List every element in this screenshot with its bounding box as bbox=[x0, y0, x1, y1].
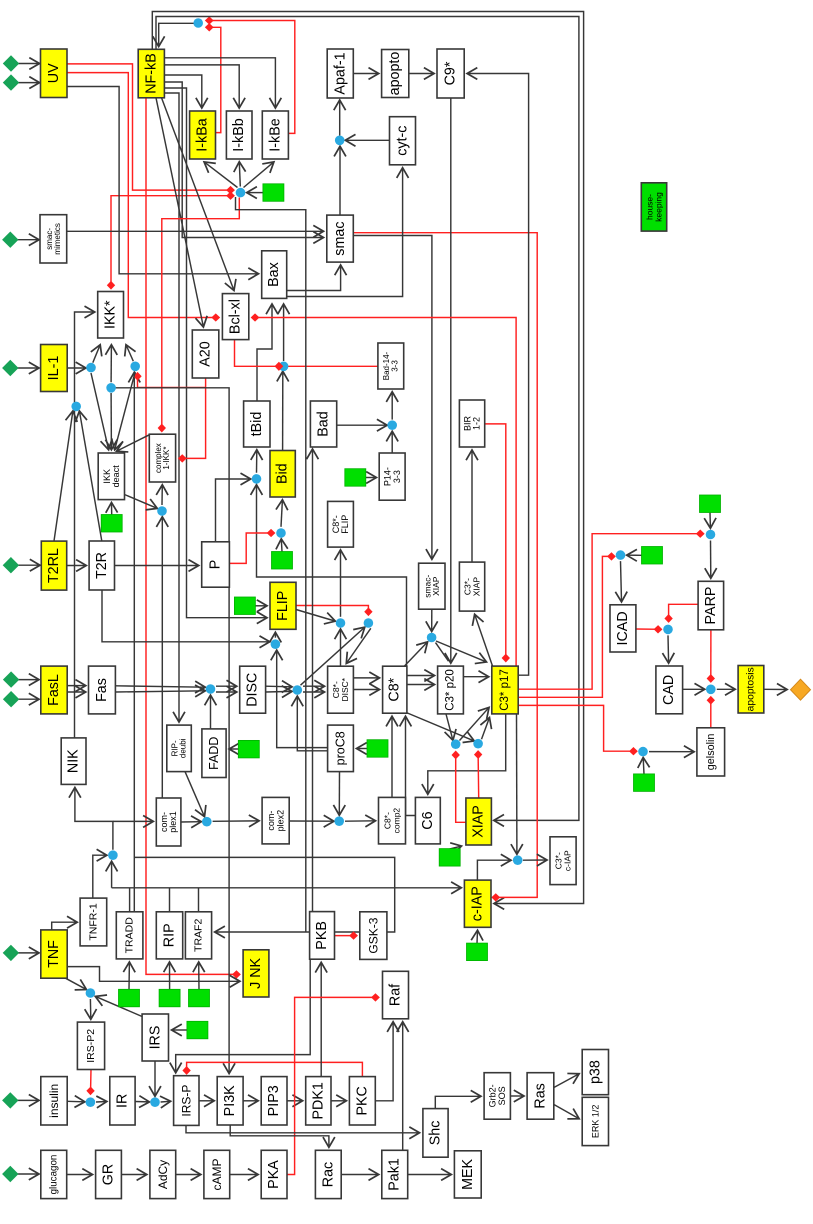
wire C3* p17 to C3*-XIAP bbox=[475, 615, 493, 666]
wire C3*-XIAP to BIR 1-2 bbox=[471, 451, 473, 563]
svg-text:3-3: 3-3 bbox=[390, 360, 399, 372]
wire Pak1 to MEK bbox=[408, 1174, 451, 1176]
wire apoptosis to output bbox=[764, 688, 787, 690]
box T2RL bbox=[41, 541, 66, 590]
wire IKK deact to complex1-IKK gate bbox=[125, 495, 157, 509]
svg-text:apoptosis: apoptosis bbox=[746, 667, 757, 711]
svg-text:I-kBe: I-kBe bbox=[267, 118, 283, 151]
svg-text:XIAP: XIAP bbox=[431, 576, 441, 596]
house-keeping square bbox=[467, 943, 488, 961]
wire proC8 to C8 gate bbox=[297, 697, 327, 751]
svg-text:C9*: C9* bbox=[443, 61, 459, 85]
wire GR to AdCy bbox=[121, 1174, 146, 1176]
box com-plex1 bbox=[156, 798, 181, 846]
wire apoptosome gate to Apaf-1 bbox=[339, 101, 341, 136]
wire square to IRS bbox=[172, 1029, 187, 1031]
box PKB bbox=[310, 912, 335, 960]
node gelsolin gate bbox=[638, 747, 648, 757]
wire gelsolin gate to gelsolin bbox=[649, 751, 694, 753]
svg-text:PKB: PKB bbox=[314, 921, 330, 950]
wire RIP-deubi to complex2 gate bbox=[185, 772, 204, 817]
wire AdCy to cAMP bbox=[176, 1174, 201, 1176]
wire C8 gate to C8*-DISC* 1 bbox=[303, 685, 324, 687]
input diamond bbox=[3, 671, 19, 687]
svg-text:PARP: PARP bbox=[703, 587, 719, 625]
node Bid gate bbox=[276, 528, 286, 538]
wire C3 p17 gate b to C3* p17 bbox=[482, 718, 490, 739]
svg-text:deubi: deubi bbox=[179, 738, 188, 758]
node C3 gate bbox=[427, 633, 437, 643]
node Bad-14-3-3 gate bbox=[387, 420, 397, 430]
wire FADD to DISC gate bbox=[210, 696, 212, 729]
wire PDK1 to PKC bbox=[331, 1100, 346, 1102]
box Bad bbox=[310, 401, 336, 447]
wire tBid to Bax bbox=[257, 305, 272, 402]
box TRAF2 bbox=[185, 912, 211, 959]
wire complex 1-IKK* to IKK deact bbox=[117, 434, 151, 451]
wire NF-kB to I-kBa bbox=[164, 75, 201, 108]
wire C8*-DISC* to C8* 1 bbox=[353, 677, 379, 679]
box PKA bbox=[261, 1150, 287, 1198]
wire input to UV 1 bbox=[18, 63, 39, 65]
wire C8* to tBid gate bbox=[257, 485, 407, 666]
svg-text:GR: GR bbox=[101, 1164, 117, 1185]
wire tBid gate to tBid bbox=[256, 450, 258, 472]
wire FLIP to C8-FLIP gate bbox=[296, 610, 335, 622]
wire Bax gate to Bax bbox=[283, 305, 285, 362]
wire Bad-14-3-3 gate to Bad-14-3-3 bbox=[391, 392, 393, 419]
box cyt-c bbox=[390, 117, 416, 165]
house-keeping square bbox=[272, 552, 293, 570]
svg-text:gelsolin: gelsolin bbox=[705, 734, 717, 771]
svg-text:UV: UV bbox=[46, 63, 62, 83]
wire complex1-IKK gate to complex 1-IKK* bbox=[161, 485, 163, 505]
svg-text:C8*: C8* bbox=[387, 677, 403, 701]
svg-text:Bid: Bid bbox=[275, 463, 291, 484]
svg-text:P: P bbox=[208, 560, 224, 570]
wire net to TRAF2 bbox=[134, 857, 394, 932]
wire C8*-comp2 to C8* bbox=[391, 717, 393, 798]
wire IRS-P2 gate to IRS-P2 bbox=[89, 999, 91, 1019]
wire complex2 gate to complex2 bbox=[213, 820, 259, 823]
wire C3* p17 to C6 bbox=[428, 714, 506, 794]
node C8-DISC gate bbox=[364, 618, 374, 628]
input diamond bbox=[2, 1166, 18, 1182]
box P14-3-3 bbox=[379, 453, 405, 500]
wire PKB inhibits GSK-3 bbox=[335, 935, 357, 937]
wire input to UV 2 bbox=[18, 82, 39, 84]
box C8*-comp2 bbox=[379, 797, 406, 844]
wire XIAP inhibits C3 p17 gate a bbox=[456, 752, 466, 822]
wire I-kB gate inhibits complex 1-IKK* bbox=[162, 198, 240, 431]
node IKK gate a bbox=[86, 363, 96, 373]
box BIR 1-2 bbox=[459, 400, 484, 447]
wire square to RIP bbox=[169, 963, 171, 990]
svg-text:Bcl-xl: Bcl-xl bbox=[228, 299, 244, 334]
input diamond bbox=[3, 945, 19, 961]
wire PKB to IRS-P bbox=[176, 959, 311, 1072]
svg-text:FLIP: FLIP bbox=[275, 591, 291, 621]
svg-text:PKA: PKA bbox=[266, 1160, 282, 1189]
wire square to FADD bbox=[230, 748, 239, 750]
box insulin bbox=[41, 1077, 67, 1125]
wire square to c-IAP bbox=[476, 931, 479, 944]
wire UV inhibits I-kB gate 2 bbox=[67, 73, 233, 196]
wire Rac to Pak1 bbox=[341, 1174, 378, 1176]
wire Fas to DISC gate 1 bbox=[116, 686, 205, 687]
wire DISC gate to DISC 2 bbox=[216, 691, 236, 693]
wire PI3K to PIP3 bbox=[243, 1100, 258, 1102]
svg-text:XIAP: XIAP bbox=[471, 805, 487, 838]
wire IKK gate b to IKK* bbox=[126, 345, 133, 361]
wire T2RL to IKK gate d bbox=[54, 412, 73, 542]
svg-text:AdCy: AdCy bbox=[156, 1160, 170, 1189]
wire square to I-kB gate bbox=[247, 192, 263, 194]
wire TRADD-RIP-TRAF2 bus to c-IAP bbox=[112, 887, 461, 889]
wire input to insulin bbox=[18, 1099, 39, 1101]
wire PKC to Raf bbox=[375, 1022, 393, 1101]
wire ICAD gate to ICAD bbox=[621, 561, 622, 601]
wire square to TRAF2 bbox=[198, 963, 200, 990]
wire smac-mimetics to smac bbox=[67, 230, 323, 232]
svg-text:cAMP: cAMP bbox=[210, 1158, 224, 1190]
wire CAD to apoptosis gate bbox=[683, 688, 705, 690]
wire input to TNF bbox=[18, 952, 39, 954]
wire input to smac-mimetics bbox=[17, 239, 39, 241]
box AdCy bbox=[150, 1150, 176, 1198]
svg-text:T2R: T2R bbox=[94, 552, 110, 579]
box Apaf-1 bbox=[327, 49, 353, 98]
house-keeping square bbox=[159, 989, 180, 1007]
input diamond bbox=[3, 557, 19, 573]
wire smac to smac-XIAP bbox=[353, 236, 432, 559]
box C3* p20 bbox=[438, 666, 464, 714]
box Bad-14-3-3 bbox=[378, 343, 404, 389]
wire TNF to TNFR-1 bbox=[52, 922, 77, 930]
wire Grb2-SOS to Ras bbox=[510, 1095, 523, 1097]
wire IKK gate c to PI3K bbox=[116, 388, 230, 1073]
house-keeping square bbox=[101, 515, 122, 533]
wire T2RL to T2R bbox=[67, 565, 86, 567]
svg-text:plex1: plex1 bbox=[168, 811, 178, 833]
wire IKK gate b to IKK deact bbox=[115, 372, 135, 450]
house-keeping square bbox=[634, 774, 655, 792]
wire C3 gate to C3* p17 bbox=[436, 641, 486, 662]
box IRS-P2 bbox=[77, 1022, 104, 1069]
node apoptosome gate bbox=[335, 136, 345, 146]
wire Ras to ERK 1/2 bbox=[554, 1105, 579, 1119]
svg-text:c-IAP: c-IAP bbox=[470, 886, 486, 921]
svg-text:Raf: Raf bbox=[388, 984, 404, 1006]
house-keeping square bbox=[119, 989, 140, 1007]
house-keeping square bbox=[345, 469, 366, 487]
svg-text:PDK1: PDK1 bbox=[310, 1082, 326, 1119]
wire PARP inhibits apoptosis gate bbox=[710, 630, 712, 682]
house-keeping square bbox=[439, 849, 460, 867]
box GR bbox=[96, 1150, 122, 1198]
svg-text:GSK-3: GSK-3 bbox=[366, 917, 380, 953]
svg-text:FLIP: FLIP bbox=[340, 515, 350, 534]
wire IRS-P to Shc bbox=[186, 1126, 419, 1133]
wire IRS to IRS-P gate bbox=[154, 1061, 156, 1096]
wire A20 inhibits complex 1-IKK* bbox=[180, 378, 206, 458]
node IRS-P gate bbox=[150, 1097, 160, 1107]
node IKK gate d bbox=[71, 402, 81, 412]
wire IKK gate a to IKK* bbox=[93, 345, 100, 363]
wire C3-c-IAP gate to C3*-c-IAP bbox=[523, 859, 547, 861]
wire TNF to IRS-P2 gate bbox=[66, 978, 87, 989]
wire NF-kB to I-kBe bbox=[164, 58, 275, 108]
wire square to gelsolin gate bbox=[642, 758, 645, 774]
wire C8*-DISC* to C8-FLIP gate bbox=[340, 630, 342, 667]
wire complex2 to C8-comp2 gate bbox=[289, 820, 333, 822]
wire Apaf-1 to apopto bbox=[353, 73, 378, 75]
box c-IAP bbox=[464, 880, 491, 927]
box Shc bbox=[423, 1109, 448, 1158]
wire apoptosis gate to apoptosis bbox=[717, 688, 735, 690]
box smac-mimetics bbox=[40, 215, 67, 263]
wire I-kB gate to I-kBb bbox=[239, 162, 240, 186]
wire square to XIAP bbox=[450, 846, 461, 849]
house-keeping square bbox=[367, 740, 388, 758]
wire T2R to IKK gate d bbox=[80, 412, 102, 542]
box smac-XIAP bbox=[419, 563, 445, 609]
svg-text:TNF: TNF bbox=[46, 940, 62, 968]
wire PI3K to Rac bbox=[230, 1125, 329, 1147]
wire smac-XIAP to C3 gate bbox=[431, 609, 433, 631]
wire FasL to Fas 1 bbox=[67, 685, 85, 687]
wire DISC to C8 gate 1 bbox=[266, 685, 292, 688]
input diamond bbox=[2, 232, 18, 248]
wire XIAP inhibits C3 p17 gate b bbox=[477, 752, 480, 798]
house-keeping square bbox=[238, 740, 259, 758]
wire C6 to C8* bbox=[406, 717, 416, 816]
wire NF-kB to c-IAP frame bbox=[152, 12, 583, 904]
box FADD bbox=[202, 729, 226, 778]
box I-kBe bbox=[262, 111, 288, 159]
box com-plex2 bbox=[262, 797, 289, 844]
box NIK bbox=[61, 738, 86, 785]
wire cyt-c to apoptosome gate bbox=[346, 139, 390, 141]
wire RIP to bus bbox=[169, 888, 171, 912]
box CAD bbox=[656, 666, 683, 714]
wire input to glucagon bbox=[18, 1173, 39, 1175]
wire TRADD to IKK gate b bbox=[133, 373, 135, 912]
wire C3* p17 inhibits PARP gate bbox=[518, 534, 704, 690]
svg-text:ICAD: ICAD bbox=[615, 611, 631, 645]
wire IRS-P to PI3K bbox=[199, 1100, 214, 1102]
wire C3* p17 inhibits ICAD gate bbox=[518, 556, 615, 697]
wire IKK gate a to IKK deact bbox=[91, 373, 109, 449]
svg-text:T2RL: T2RL bbox=[46, 548, 62, 583]
wire ICAD inhibits CAD gate bbox=[636, 628, 661, 630]
node T2R gate bbox=[271, 639, 281, 649]
wire C3* p17 to C3-c-IAP gate bbox=[516, 714, 518, 854]
svg-text:cyt-c: cyt-c bbox=[395, 126, 411, 156]
box I-kBa bbox=[190, 111, 216, 159]
wire complex1 gate to complex1 bbox=[113, 820, 153, 822]
house-keeping square bbox=[263, 184, 284, 201]
node C8 gate bbox=[293, 685, 303, 695]
wire DISC to C8 gate 2 bbox=[266, 690, 292, 693]
svg-text:MEK: MEK bbox=[460, 1158, 476, 1189]
svg-text:J NK: J NK bbox=[248, 957, 264, 988]
wire input to IL-1 bbox=[18, 367, 39, 369]
house-keeping square bbox=[642, 547, 663, 565]
wire P14-3-3 to Bad-14-3-3 gate bbox=[391, 432, 393, 453]
svg-text:A20: A20 bbox=[198, 341, 214, 366]
box FasL bbox=[41, 666, 67, 714]
wire Shc to Grb2-SOS bbox=[435, 1096, 480, 1108]
box C8*-DISC* bbox=[328, 666, 354, 713]
box apopto bbox=[382, 50, 409, 98]
svg-text:IL-1: IL-1 bbox=[46, 356, 62, 381]
node CAD gate bbox=[663, 625, 673, 635]
svg-text:NIK: NIK bbox=[66, 749, 82, 773]
input diamond bbox=[3, 74, 19, 90]
node C3 p17 gate b bbox=[473, 739, 483, 749]
wire C8* to C3* p20 2 bbox=[407, 684, 434, 686]
wire T2R to P bbox=[115, 565, 199, 567]
box smac bbox=[327, 215, 354, 262]
box tBid bbox=[244, 401, 270, 447]
wire NF-kB inhibits JNK bbox=[146, 98, 239, 975]
wire square to FLIP bbox=[255, 605, 266, 607]
node Bax gate bbox=[279, 362, 289, 372]
wire cAMP to PKA bbox=[230, 1174, 258, 1176]
wire Fas to DISC gate 2 bbox=[116, 691, 205, 692]
node C3-c-IAP gate bbox=[513, 855, 523, 865]
wire PKB to Bad bbox=[312, 450, 314, 912]
box IL-1 bbox=[41, 345, 68, 392]
wire C8* to C3 p17 gate b bbox=[405, 712, 474, 741]
box C9* bbox=[437, 49, 464, 98]
wire proC8 to C8-comp2 gate bbox=[338, 772, 340, 815]
node IKK gate b bbox=[130, 362, 140, 372]
box PDK1 bbox=[306, 1077, 331, 1125]
svg-text:TRADD: TRADD bbox=[124, 917, 136, 954]
svg-text:mimetics: mimetics bbox=[53, 223, 62, 255]
box IRS-P bbox=[174, 1076, 199, 1126]
wire PKA inhibits Raf bbox=[287, 997, 378, 1174]
box A20 bbox=[192, 330, 219, 378]
svg-text:proC8: proC8 bbox=[334, 731, 348, 765]
box Bcl-xl bbox=[222, 294, 248, 340]
wire I-kB gate to I-kBe bbox=[244, 162, 274, 187]
wire NF-kB to XIAP frame bbox=[156, 17, 579, 821]
box PARP bbox=[698, 581, 724, 630]
box IR bbox=[110, 1077, 135, 1125]
node complex1 gate bbox=[108, 850, 118, 860]
svg-text:tBid: tBid bbox=[249, 412, 265, 437]
svg-text:Shc: Shc bbox=[428, 1121, 444, 1146]
svg-text:C3* p20: C3* p20 bbox=[445, 669, 457, 711]
wire IKK gate c to IKK* bbox=[110, 345, 112, 382]
wire C3* p17 inhibits gelsolin gate bbox=[518, 705, 637, 751]
wire proC8 to T2R gate bbox=[277, 651, 328, 748]
wire IR to IRS-P gate bbox=[135, 1101, 149, 1103]
wire FLIP inhibits C8-DISC gate bbox=[296, 606, 368, 615]
box C3* p17 bbox=[492, 666, 518, 714]
wire IKK gate c to IKK deact bbox=[110, 393, 112, 449]
box Pak1 bbox=[382, 1150, 408, 1198]
node complex2 gate bbox=[202, 817, 212, 827]
wire C8-DISC gate to C8*-DISC* bbox=[347, 628, 371, 663]
svg-text:IRS-P: IRS-P bbox=[179, 1085, 193, 1117]
box C8* bbox=[383, 666, 407, 713]
svg-text:Ras: Ras bbox=[533, 1083, 549, 1108]
wire TNFR-1 to complex1 gate bbox=[93, 855, 107, 898]
box house-keeping bbox=[641, 183, 666, 231]
box apoptosis bbox=[738, 666, 764, 714]
box glucagon bbox=[41, 1150, 67, 1198]
wire CAD gate to CAD bbox=[667, 635, 670, 662]
svg-text:insulin: insulin bbox=[47, 1084, 61, 1118]
node DISC gate bbox=[206, 684, 216, 694]
input diamond bbox=[2, 1092, 18, 1108]
svg-text:DISC: DISC bbox=[245, 673, 261, 707]
box PI3K bbox=[217, 1077, 243, 1125]
wire FasL to Fas 2 bbox=[67, 691, 85, 693]
box complex 1-IKK* bbox=[149, 434, 175, 482]
node complex1-IKK gate bbox=[157, 506, 167, 516]
box IRS bbox=[142, 1014, 168, 1061]
box NF-kB bbox=[138, 49, 164, 98]
wire square to ICAD gate bbox=[627, 554, 642, 556]
box XIAP bbox=[466, 798, 492, 845]
wire NF-kB to RIP-deubi bbox=[164, 93, 179, 722]
box cAMP bbox=[204, 1150, 230, 1198]
wire C8-FLIP gate to C8*-FLIP bbox=[340, 550, 342, 616]
svg-text:ERK 1/2: ERK 1/2 bbox=[590, 1105, 600, 1139]
box p38 bbox=[582, 1050, 608, 1095]
box UV bbox=[41, 49, 68, 98]
wire square to IKK deact bbox=[111, 503, 113, 515]
wire UV inhibits IKK* bbox=[111, 196, 128, 288]
svg-text:PI3K: PI3K bbox=[222, 1085, 238, 1116]
input diamond bbox=[2, 360, 18, 376]
svg-text:TNFR-1: TNFR-1 bbox=[87, 903, 99, 940]
node NF-kB gate bbox=[193, 18, 203, 28]
svg-text:smac: smac bbox=[332, 222, 348, 256]
wire NF-kB gate to NF-kB bbox=[159, 23, 194, 46]
wire I-kBe inhibits NF-kB gate bbox=[207, 21, 295, 134]
svg-text:PIP3: PIP3 bbox=[266, 1085, 282, 1116]
wire gelsolin inhibits apoptosis gate bbox=[710, 698, 712, 728]
wire Bcl-xl inhibits Bax gate bbox=[235, 340, 378, 367]
wire PARP gate to PARP bbox=[710, 541, 712, 578]
svg-text:c-IAP: c-IAP bbox=[562, 850, 572, 871]
box T2R bbox=[89, 541, 114, 590]
svg-text:SOS: SOS bbox=[497, 1086, 507, 1105]
svg-text:XIAP: XIAP bbox=[471, 577, 481, 597]
wire A20 inhibits IKK gate b bbox=[138, 374, 206, 388]
node I-kB gate bbox=[236, 188, 246, 198]
box Grb2-SOS bbox=[484, 1073, 510, 1120]
svg-text:C3* p17: C3* p17 bbox=[499, 669, 511, 711]
wire square to Bid gate bbox=[280, 539, 283, 551]
box ICAD bbox=[610, 605, 636, 652]
svg-text:keeping: keeping bbox=[653, 192, 663, 222]
node PARP gate bbox=[706, 530, 716, 540]
wire NF-kB to Bcl-xl diagonal bbox=[162, 98, 234, 290]
svg-text:Pak1: Pak1 bbox=[387, 1158, 403, 1191]
svg-text:C6: C6 bbox=[420, 811, 436, 829]
box FLIP bbox=[270, 582, 296, 629]
wire PARP inhibits CAD gate bbox=[669, 604, 699, 621]
svg-text:I-kBa: I-kBa bbox=[195, 118, 211, 151]
svg-text:glucagon: glucagon bbox=[48, 1155, 59, 1195]
